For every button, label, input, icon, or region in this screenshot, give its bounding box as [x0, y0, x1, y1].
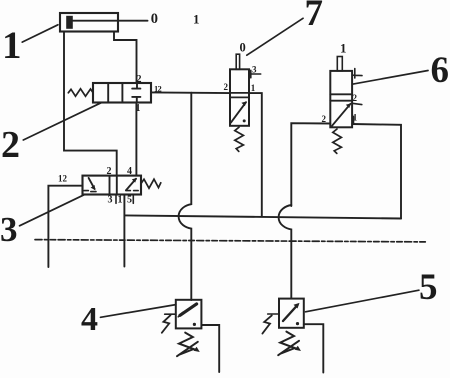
- valve 3 divider a: [109, 176, 111, 195]
- svg-text:4: 4: [81, 301, 98, 338]
- svg-text:1: 1: [193, 11, 200, 26]
- valve 4 throttle symbol below: [179, 333, 194, 355]
- leader line 5: [306, 290, 419, 312]
- cylinder 1 rod: [73, 20, 148, 22]
- valve 7 spring: [235, 127, 244, 151]
- valve 4 box: [176, 300, 202, 329]
- valve 4 arrow tail tick: [178, 312, 182, 316]
- svg-text:5: 5: [127, 195, 132, 206]
- svg-text:1: 1: [118, 195, 123, 206]
- wire valve2 port1 down to valve3 port4: [135, 103, 137, 176]
- wire cylinder left port down: [64, 32, 117, 176]
- valve 4 left tick: [165, 313, 176, 315]
- svg-text:1: 1: [2, 24, 22, 67]
- cylinder 1 piston: [66, 16, 73, 29]
- valve 7 dot: [243, 119, 246, 122]
- valve 3 spring: [141, 179, 161, 188]
- valve 6 port 3 tick: [352, 69, 362, 79]
- svg-text:2: 2: [1, 124, 20, 166]
- valve 5 throttle arrow: [278, 341, 299, 355]
- cylinder 1 body: [60, 13, 118, 32]
- svg-text:5: 5: [419, 267, 438, 308]
- valve 7 plunger: [236, 54, 239, 69]
- valve 2 divider a: [107, 83, 109, 103]
- wire valve6 bottom-left to hop line: [291, 123, 330, 206]
- valve 7 bottom box: [230, 96, 249, 98]
- leader line 3: [20, 195, 85, 226]
- leader line 4: [101, 305, 176, 318]
- valve 7 top box: [230, 69, 249, 126]
- valve 6 arrow in bottom box: [332, 104, 351, 126]
- valve 3 right cell seat ticks: [126, 190, 138, 192]
- svg-text:7: 7: [305, 0, 324, 34]
- svg-text:1: 1: [340, 41, 347, 56]
- wire valve3 pilot 12 left then down: [48, 186, 82, 267]
- valve 4 arrow: [180, 304, 197, 315]
- valve 4 lightning: [162, 315, 171, 333]
- valve 6 bottom box: [330, 100, 352, 102]
- valve 6 plunger: [337, 57, 342, 71]
- valve 7 port 3 tick: [249, 70, 261, 78]
- valve 5 left tick: [268, 313, 279, 315]
- valve 3 port 5 stub: [132, 195, 134, 204]
- valve 6 spring: [333, 129, 342, 153]
- valve 3 divider b: [116, 176, 118, 195]
- valve 5 arrow: [283, 305, 298, 321]
- valve 4 output wire: [201, 325, 219, 372]
- valve 5 throttle symbol below: [280, 332, 295, 354]
- leader line 7: [247, 18, 303, 55]
- valve 4 dot: [193, 323, 196, 326]
- valve 6 top box: [330, 71, 352, 127]
- valve 3 arrow right cell: [126, 179, 136, 191]
- svg-text:3: 3: [108, 195, 113, 206]
- leader line 2: [23, 103, 101, 140]
- svg-text:3: 3: [252, 65, 257, 75]
- wire 12 line valve2 to valve7: [151, 91, 230, 94]
- svg-text:2: 2: [107, 166, 112, 177]
- valve 3 arrow left cell: [89, 178, 95, 189]
- wire 12-junction down with hop to valve 4: [179, 93, 192, 300]
- svg-text:2: 2: [224, 82, 229, 92]
- valve 7 arrow in bottom box: [231, 102, 246, 122]
- dash-dot reference line: [35, 240, 426, 242]
- svg-text:6: 6: [431, 50, 450, 91]
- wire valve6 bottom-right to bus right end: [352, 124, 401, 219]
- valve 2 seat bottom T: [132, 97, 140, 103]
- valve 3 body: [83, 176, 142, 195]
- svg-text:12: 12: [58, 174, 68, 184]
- valve 5 lightning: [262, 315, 271, 333]
- svg-text:2: 2: [353, 93, 358, 103]
- svg-text:2: 2: [137, 74, 142, 85]
- valve 5 output wire: [304, 324, 324, 372]
- valve 2 divider b: [121, 83, 123, 103]
- valve 2 body: [93, 83, 151, 103]
- valve 2 seat top T: [132, 83, 140, 88]
- leader line 1: [22, 25, 58, 42]
- wire valve7 port1 right then down to bus: [249, 93, 262, 217]
- wire valve3 port1 down (supply): [123, 195, 125, 267]
- valve 3 left cell seat ticks: [84, 191, 96, 192]
- svg-text:4: 4: [127, 166, 132, 177]
- bus line: [124, 215, 401, 218]
- wire cylinder right port to valve 2: [114, 32, 137, 84]
- wire valve6 branch down with hop to valve 5: [279, 205, 292, 299]
- svg-text:0: 0: [240, 41, 246, 55]
- valve 2 spring: [68, 89, 93, 96]
- valve 6 port 1 tick: [353, 117, 355, 124]
- svg-text:0: 0: [151, 11, 158, 27]
- valve 4 throttle arrow: [177, 342, 198, 356]
- valve 6 port 2 tick: [352, 103, 362, 104]
- svg-text:1: 1: [251, 83, 256, 93]
- leader line 6: [352, 71, 428, 85]
- svg-text:3: 3: [0, 210, 18, 249]
- svg-text:2: 2: [322, 114, 327, 124]
- valve 5 box: [279, 299, 304, 328]
- valve 5 dot: [296, 322, 299, 325]
- valve 3 port 3 stub: [115, 195, 117, 204]
